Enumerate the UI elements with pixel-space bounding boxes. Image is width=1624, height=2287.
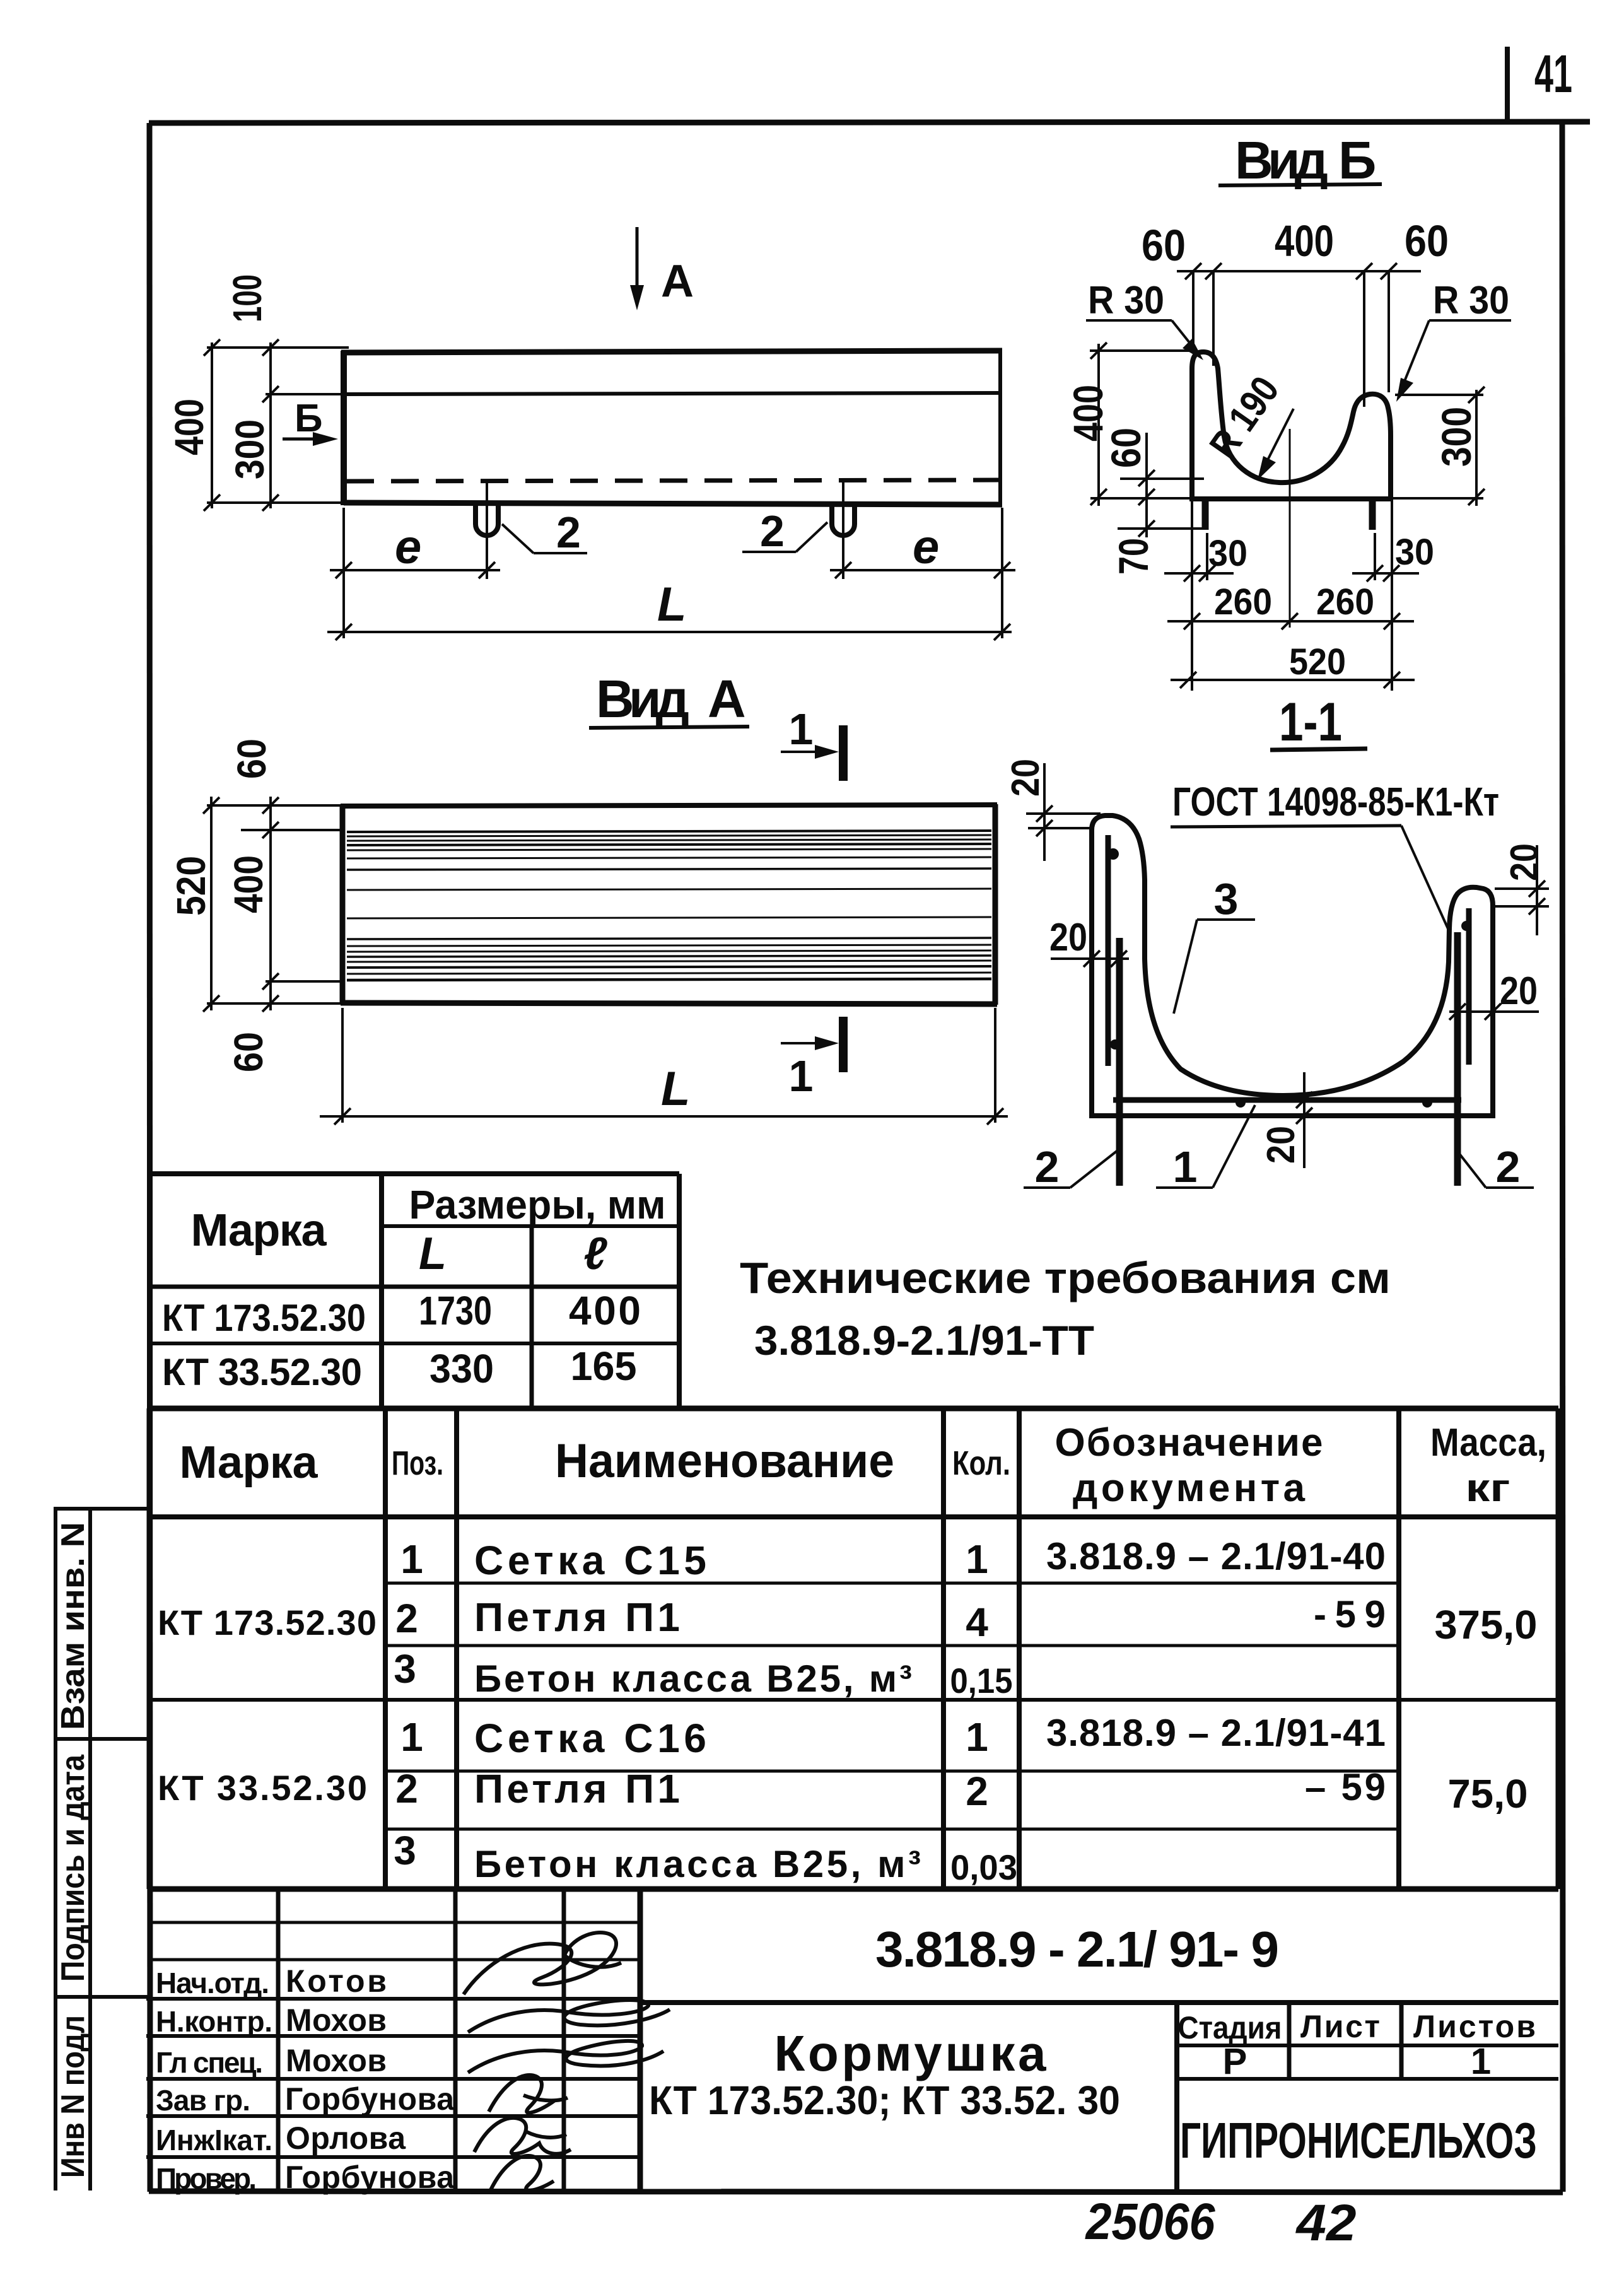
- svg-text:3.818.9-2.1/91-ТТ: 3.818.9-2.1/91-ТТ: [754, 1317, 1094, 1364]
- svg-text:3.818.9 – 2.1/91-40: 3.818.9 – 2.1/91-40: [1046, 1535, 1386, 1577]
- svg-text:0,15: 0,15: [950, 1661, 1013, 1700]
- view B: dim 60 left: [1120, 433, 1204, 506]
- svg-text:1-1: 1-1: [1279, 692, 1342, 752]
- section 1-1: dim 20 bottom: [1259, 1072, 1312, 1168]
- svg-text:3: 3: [1214, 874, 1239, 923]
- svg-text:2: 2: [556, 508, 581, 557]
- svg-text:КТ 33.52.30: КТ 33.52.30: [162, 1351, 362, 1393]
- title block grid: [146, 1889, 1558, 2192]
- side view: view arrow A: [630, 227, 694, 310]
- svg-text:1: 1: [1173, 1142, 1198, 1191]
- view B: R30 left: [1086, 279, 1203, 360]
- section 1-1: dim 20 right-middle: [1449, 969, 1539, 1020]
- svg-text:100: 100: [225, 274, 270, 322]
- svg-text:20: 20: [1259, 1126, 1303, 1164]
- left sidebar box: [54, 1509, 149, 2190]
- side view: view arrow Б: [283, 397, 338, 446]
- svg-text:1: 1: [789, 1051, 814, 1101]
- section 1-1: label 2 right: [1459, 1142, 1534, 1191]
- view B: centerline: [1289, 429, 1291, 628]
- svg-text:400: 400: [1275, 216, 1334, 266]
- svg-text:кг: кг: [1466, 1466, 1510, 1510]
- side view: body outline: [341, 351, 1002, 505]
- signature squiggles: [464, 1933, 670, 2190]
- svg-text:300: 300: [1433, 407, 1480, 467]
- svg-text:КТ 173.52.30: КТ 173.52.30: [162, 1297, 366, 1339]
- view A: plank outline: [341, 804, 997, 1005]
- svg-text:А: А: [708, 669, 746, 728]
- svg-text:20: 20: [1004, 759, 1048, 797]
- svg-text:Технические требования см: Технические требования см: [740, 1253, 1391, 1302]
- view A: dim L: [320, 1008, 1008, 1125]
- svg-text:R 30: R 30: [1433, 279, 1509, 322]
- svg-text:Размеры, мм: Размеры, мм: [409, 1182, 666, 1227]
- svg-text:– 59: – 59: [1305, 1766, 1386, 1808]
- svg-text:-59: -59: [1314, 1593, 1386, 1635]
- svg-text:Кол.: Кол.: [952, 1444, 1010, 1482]
- section 1-1: label 1: [1156, 1105, 1255, 1191]
- svg-text:165: 165: [571, 1343, 637, 1389]
- section 1-1: loop bar left: [1116, 938, 1123, 1186]
- svg-text:2: 2: [966, 1769, 988, 1814]
- svg-text:Марка: Марка: [180, 1437, 318, 1488]
- svg-text:L: L: [419, 1229, 447, 1279]
- svg-text:e: e: [395, 520, 421, 574]
- svg-text:Сетка С16: Сетка С16: [474, 1716, 706, 1761]
- svg-text:Лист: Лист: [1300, 2009, 1380, 2044]
- svg-text:260: 260: [1214, 582, 1272, 623]
- view A: section mark top: [781, 705, 843, 781]
- section 1-1: GOST weld note: [1171, 779, 1499, 932]
- view A: section mark bottom: [781, 1017, 843, 1101]
- svg-text:L: L: [661, 1062, 690, 1116]
- view B: dim 70 left: [1118, 506, 1208, 537]
- svg-text:Бетон класса В25, м³: Бетон класса В25, м³: [474, 1843, 921, 1885]
- svg-text:ИнжIкат.: ИнжIкат.: [156, 2124, 272, 2156]
- svg-text:Р: Р: [1223, 2041, 1247, 2082]
- svg-text:60: 60: [229, 739, 274, 779]
- svg-text:75,0: 75,0: [1448, 1771, 1528, 1816]
- svg-text:1: 1: [966, 1714, 988, 1760]
- svg-text:260: 260: [1316, 582, 1374, 623]
- svg-text:2: 2: [760, 506, 785, 556]
- svg-text:Марка: Марка: [191, 1205, 327, 1256]
- svg-text:520: 520: [168, 856, 214, 916]
- svg-text:Котов: Котов: [286, 1963, 387, 1999]
- svg-text:А: А: [661, 256, 694, 307]
- svg-text:e: e: [913, 520, 939, 574]
- svg-text:60: 60: [226, 1032, 271, 1072]
- svg-text:Подпись и дата: Подпись и дата: [55, 1754, 91, 1982]
- svg-text:30: 30: [1395, 532, 1434, 573]
- svg-text:Вид: Вид: [1235, 131, 1328, 190]
- svg-text:400: 400: [226, 855, 271, 913]
- svg-text:документа: документа: [1073, 1466, 1306, 1510]
- svg-text:2: 2: [395, 1766, 418, 1811]
- svg-text:2: 2: [1035, 1142, 1060, 1191]
- svg-text:Н.контр.: Н.контр.: [156, 2005, 272, 2038]
- svg-text:1: 1: [1471, 2041, 1491, 2082]
- svg-text:КТ 173.52.30: КТ 173.52.30: [158, 1603, 377, 1642]
- side view: loop 2 left: [476, 505, 498, 535]
- svg-text:Мохов: Мохов: [286, 2003, 387, 2038]
- svg-text:Вид: Вид: [596, 669, 689, 728]
- svg-text:Мохов: Мохов: [286, 2043, 387, 2078]
- svg-text:Б: Б: [1338, 131, 1376, 190]
- view B: R30 right: [1396, 279, 1511, 402]
- view B: R190 label: [1201, 369, 1294, 480]
- svg-text:2: 2: [395, 1596, 418, 1641]
- svg-text:КТ 173.52.30; КТ 33.52. 30: КТ 173.52.30; КТ 33.52. 30: [649, 2078, 1120, 2123]
- svg-text:Орлова: Орлова: [286, 2120, 406, 2156]
- svg-text:60: 60: [1102, 428, 1149, 468]
- view A: dim 60/400/60: [262, 797, 279, 1012]
- svg-text:520: 520: [1289, 641, 1346, 682]
- svg-text:60: 60: [1142, 221, 1186, 270]
- side view: dim L: [327, 624, 1012, 640]
- view A: surface hatch lines: [347, 831, 991, 980]
- svg-text:375,0: 375,0: [1435, 1602, 1538, 1647]
- svg-text:1: 1: [789, 705, 814, 754]
- view A title: [589, 669, 749, 728]
- svg-text:1730: 1730: [419, 1288, 492, 1333]
- section 1-1: label 2 left: [1024, 1142, 1118, 1191]
- view B: dim 30 left: [1164, 533, 1234, 582]
- svg-text:330: 330: [429, 1346, 494, 1391]
- svg-text:30: 30: [1208, 533, 1247, 574]
- svg-text:2: 2: [1496, 1142, 1521, 1191]
- section 1-1: mesh bars: [1108, 835, 1469, 1100]
- view B: trough outline: [1192, 352, 1391, 499]
- svg-text:60: 60: [1405, 216, 1449, 266]
- svg-text:Провер.: Провер.: [156, 2162, 257, 2195]
- view B: dim 30 right: [1352, 533, 1419, 582]
- section 1-1: rebar dots: [1107, 848, 1471, 1108]
- svg-text:Обозначение: Обозначение: [1055, 1421, 1323, 1465]
- svg-text:20: 20: [1500, 969, 1538, 1013]
- section 1-1: dim 20 right-top: [1492, 843, 1549, 935]
- svg-text:Стадия: Стадия: [1178, 2010, 1282, 2045]
- view A: dim 520: [203, 797, 219, 1012]
- svg-text:Масса,: Масса,: [1430, 1421, 1546, 1465]
- page number 41: [1507, 44, 1572, 121]
- section 1-1: loop bar right: [1454, 932, 1461, 1186]
- section 1-1: dim 20 left-middle: [1049, 916, 1129, 967]
- svg-text:Горбунова: Горбунова: [285, 2081, 455, 2117]
- view B: dim 400 left: [1090, 342, 1195, 506]
- svg-text:20: 20: [1503, 843, 1546, 881]
- side view: dim e right: [830, 562, 1015, 578]
- svg-text:Кормушка: Кормушка: [774, 2025, 1047, 2081]
- view B: dim 300 right: [1393, 387, 1485, 506]
- svg-text:Нач.отд.: Нач.отд.: [156, 1967, 269, 1999]
- svg-text:42: 42: [1295, 2194, 1356, 2252]
- side view: label 2 right: [742, 506, 827, 556]
- svg-text:КТ 33.52.30: КТ 33.52.30: [158, 1768, 367, 1808]
- side view: dim line 400: [204, 339, 220, 511]
- side view: label 2 left: [502, 508, 587, 557]
- svg-text:Взам инв. N: Взам инв. N: [55, 1522, 91, 1730]
- svg-text:400: 400: [569, 1288, 641, 1333]
- svg-text:3.818.9 - 2.1/ 91- 9: 3.818.9 - 2.1/ 91- 9: [875, 1921, 1279, 1977]
- svg-text:41: 41: [1534, 44, 1572, 103]
- side view: extension lines: [207, 348, 1002, 638]
- side view: dim line 100/300: [262, 339, 279, 511]
- svg-text:3: 3: [394, 1646, 416, 1692]
- svg-text:1: 1: [400, 1536, 423, 1582]
- view B: loop end left: [1202, 501, 1209, 530]
- svg-text:20: 20: [1049, 916, 1087, 959]
- svg-text:ГИПРОНИСЕЛЬХОЗ: ГИПРОНИСЕЛЬХОЗ: [1180, 2112, 1537, 2168]
- section 1-1 title: [1270, 692, 1367, 752]
- svg-text:3.818.9 – 2.1/91-41: 3.818.9 – 2.1/91-41: [1046, 1712, 1386, 1754]
- view B: loop end right: [1369, 501, 1376, 530]
- svg-text:ГОСТ 14098-85-К1-Кт: ГОСТ 14098-85-К1-Кт: [1172, 779, 1499, 824]
- table 2 specification: grid: [149, 1408, 1558, 1889]
- view B: dim 520: [1171, 672, 1415, 688]
- svg-text:Листов: Листов: [1413, 2009, 1536, 2044]
- svg-text:0,03: 0,03: [950, 1847, 1017, 1887]
- svg-text:Сетка С15: Сетка С15: [474, 1538, 706, 1583]
- svg-text:4: 4: [966, 1600, 988, 1645]
- svg-text:70: 70: [1110, 538, 1157, 575]
- section 1-1: dim 20 top-left: [1004, 759, 1101, 861]
- view B: dim 260/260: [1167, 499, 1414, 691]
- section 1-1: label 3: [1174, 874, 1255, 1014]
- svg-text:Наименование: Наименование: [555, 1434, 894, 1488]
- view A: extension lines: [207, 805, 346, 1003]
- svg-text:1: 1: [400, 1714, 423, 1760]
- svg-text:1: 1: [966, 1536, 988, 1582]
- svg-text:Инв N подл: Инв N подл: [55, 2015, 91, 2178]
- view B title: [1218, 131, 1382, 190]
- view B: top dim 60/400/60: [1177, 263, 1421, 407]
- svg-text:Зав гр.: Зав гр.: [156, 2084, 250, 2117]
- svg-text:Поз.: Поз.: [392, 1444, 443, 1482]
- svg-text:400: 400: [166, 399, 212, 455]
- svg-text:Горбунова: Горбунова: [285, 2160, 455, 2195]
- svg-text:L: L: [657, 578, 686, 631]
- section 1-1: concrete outline: [1092, 816, 1493, 1116]
- svg-text:25066: 25066: [1085, 2193, 1216, 2250]
- svg-text:3: 3: [394, 1828, 416, 1873]
- svg-text:300: 300: [227, 419, 272, 479]
- svg-text:Бетон класса В25, м³: Бетон класса В25, м³: [474, 1658, 912, 1700]
- svg-text:ℓ: ℓ: [583, 1229, 607, 1279]
- svg-text:Гл спец.: Гл спец.: [156, 2046, 263, 2079]
- svg-text:R 30: R 30: [1088, 279, 1164, 322]
- table 1 sizes: grid: [149, 1174, 679, 1408]
- side view: dim e left: [330, 562, 500, 578]
- side view: loop 2 right: [832, 505, 855, 535]
